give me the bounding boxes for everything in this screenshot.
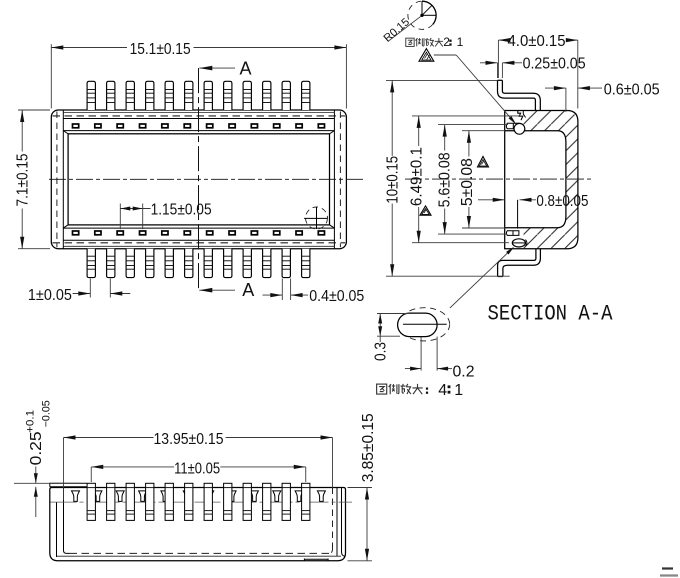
plan view: bottom band lines [63, 245, 334, 247]
note: detail scale 2:1 text [406, 38, 443, 47]
plan view: end cap walls [62, 110, 64, 249]
svg-text:0.6±0.05: 0.6±0.05 [604, 82, 660, 99]
svg-text:0.25: 0.25 [28, 431, 45, 465]
svg-text:1±0.05: 1±0.05 [28, 287, 72, 304]
svg-text:1: 1 [454, 382, 463, 399]
flag triangle 3 [420, 206, 431, 215]
section view: bottom lead (SMT tail) [498, 249, 536, 277]
svg-text:5±0.08: 5±0.08 [459, 158, 476, 206]
dimension 15.1±0.15 [50, 44, 52, 108]
plan view: hidden dashed lines top/bottom [53, 115, 346, 117]
dimension 13.95±0.15 [63, 438, 65, 501]
bottom view: left mounting foot tab [50, 483, 87, 487]
dimension 3.85±0.15 [348, 487, 373, 489]
leader R0.15 [389, 16, 422, 41]
section view: cavity outline [505, 131, 566, 228]
plan view: inner cavity [68, 134, 329, 225]
dimension 0.8±0.05 [478, 199, 505, 201]
svg-text:1: 1 [457, 35, 464, 49]
plan view: top band lines [63, 111, 334, 113]
title block corner marks [662, 567, 673, 569]
bottom view: contact feet (goblets) [72, 491, 80, 502]
svg-text:3.85±0.15: 3.85±0.15 [360, 413, 377, 482]
plan view: bottom row contact squares [73, 231, 79, 235]
svg-text:6.49±0.1: 6.49±0.1 [409, 147, 426, 206]
svg-text:11±0.05: 11±0.05 [174, 461, 220, 478]
svg-text:0.4±0.05: 0.4±0.05 [309, 288, 364, 305]
leader from triangle 1 to top contact [434, 54, 456, 56]
flag triangle 2 [478, 156, 489, 167]
bottom view: gate tab mark [304, 559, 328, 561]
detail circle R0.15 (2:1) [408, 1, 436, 29]
section view: top contact circle [514, 123, 525, 134]
svg-text:A: A [242, 280, 254, 300]
svg-text:0.25±0.05: 0.25±0.05 [523, 56, 586, 73]
dimension 0.4±0.05 [281, 279, 283, 301]
plan view: connector body outline [51, 110, 346, 249]
svg-text:0.2: 0.2 [453, 364, 475, 381]
section view: bottom contact arm cross-section [506, 231, 519, 236]
dimension 4.0±0.15 [497, 40, 499, 78]
svg-text:2: 2 [443, 35, 450, 49]
dimension 1.15±0.05 [119, 204, 121, 230]
dimension 10±0.15 [386, 79, 497, 81]
detail 4:1: contact tip stadium [398, 313, 438, 337]
detail 4:1: dashed boundary ellipse [399, 308, 449, 341]
dimension 7.1±0.15 [18, 109, 50, 111]
svg-text:4.0±0.15: 4.0±0.15 [508, 33, 566, 50]
section view: hatch regions [505, 111, 578, 249]
dimension 0.6±0.05 [565, 88, 567, 112]
plan view: cavity corner chamfers [63, 131, 68, 134]
plan view: datum target circle mark [306, 207, 328, 229]
dimension 0.3 [377, 313, 417, 315]
plan view: top pins with serrations [87, 81, 95, 110]
dimension 1±0.05 [89, 279, 91, 298]
section view: white patches over contact areas [504, 110, 523, 132]
section view: 0.8 reference line [517, 200, 519, 229]
svg-text:0.8±0.05: 0.8±0.05 [536, 193, 588, 210]
svg-text:15.1±0.15: 15.1±0.15 [130, 41, 191, 58]
bottom view: end cap lines [64, 488, 70, 554]
bottom view: inner bottom thin line [57, 555, 341, 557]
flag triangle 1 [419, 49, 434, 62]
dimension 6.49±0.1 [412, 115, 523, 117]
svg-text:1.15±0.05: 1.15±0.05 [151, 201, 212, 218]
section view: top contact retention notch [518, 111, 523, 121]
leader from section bottom contact to detail [450, 248, 513, 308]
dimension 0.2 [420, 337, 422, 371]
section view: top lead (SMT tail) [498, 80, 536, 110]
section view: centerline [405, 178, 591, 180]
bottom view: hidden dashed lines [332, 488, 334, 550]
svg-text:5.6±0.08: 5.6±0.08 [436, 152, 453, 207]
section view: bottom contact oval [512, 239, 525, 247]
section view: top contact arm cross-section [506, 123, 518, 129]
bottom view: pin strips [87, 483, 95, 520]
dimension 11±0.05 [90, 467, 92, 482]
plan view: hidden end lines (dashed) [56, 112, 58, 248]
dimension 0.25±0.05 [497, 63, 499, 78]
dimension 5.6±0.08 [438, 124, 508, 126]
plan view: top row contact squares [73, 124, 79, 128]
svg-text:0.3: 0.3 [373, 342, 390, 361]
svg-text:7.1±0.15: 7.1±0.15 [14, 153, 31, 206]
note: detail scale 4:1 text [377, 384, 423, 394]
svg-text:4: 4 [438, 382, 447, 399]
detail 4:1: mid line [403, 323, 447, 325]
section arrow bottom with label A [199, 289, 235, 291]
bottom view: internal shelf line [51, 501, 353, 503]
dimension 0.25 +0.1/-0.05 [14, 482, 80, 484]
plan view: horizontal centerline [49, 178, 365, 180]
svg-text:−0.05: −0.05 [40, 400, 52, 427]
section arrow top with label A [199, 67, 235, 69]
svg-text:R0.15: R0.15 [382, 16, 412, 45]
svg-text:A: A [239, 58, 251, 78]
dimension 5±0.08 [462, 130, 505, 132]
plan view: section cutting line A-A [198, 68, 200, 290]
bottom view: body outline [50, 488, 346, 561]
svg-text:13.95±0.15: 13.95±0.15 [154, 431, 224, 448]
svg-text:SECTION A-A: SECTION A-A [488, 300, 613, 326]
svg-text:10±0.15: 10±0.15 [385, 156, 402, 204]
section view: housing outline [505, 111, 578, 249]
plan view: bottom pins with serrations [87, 249, 95, 278]
svg-text:+0.1: +0.1 [24, 410, 36, 433]
